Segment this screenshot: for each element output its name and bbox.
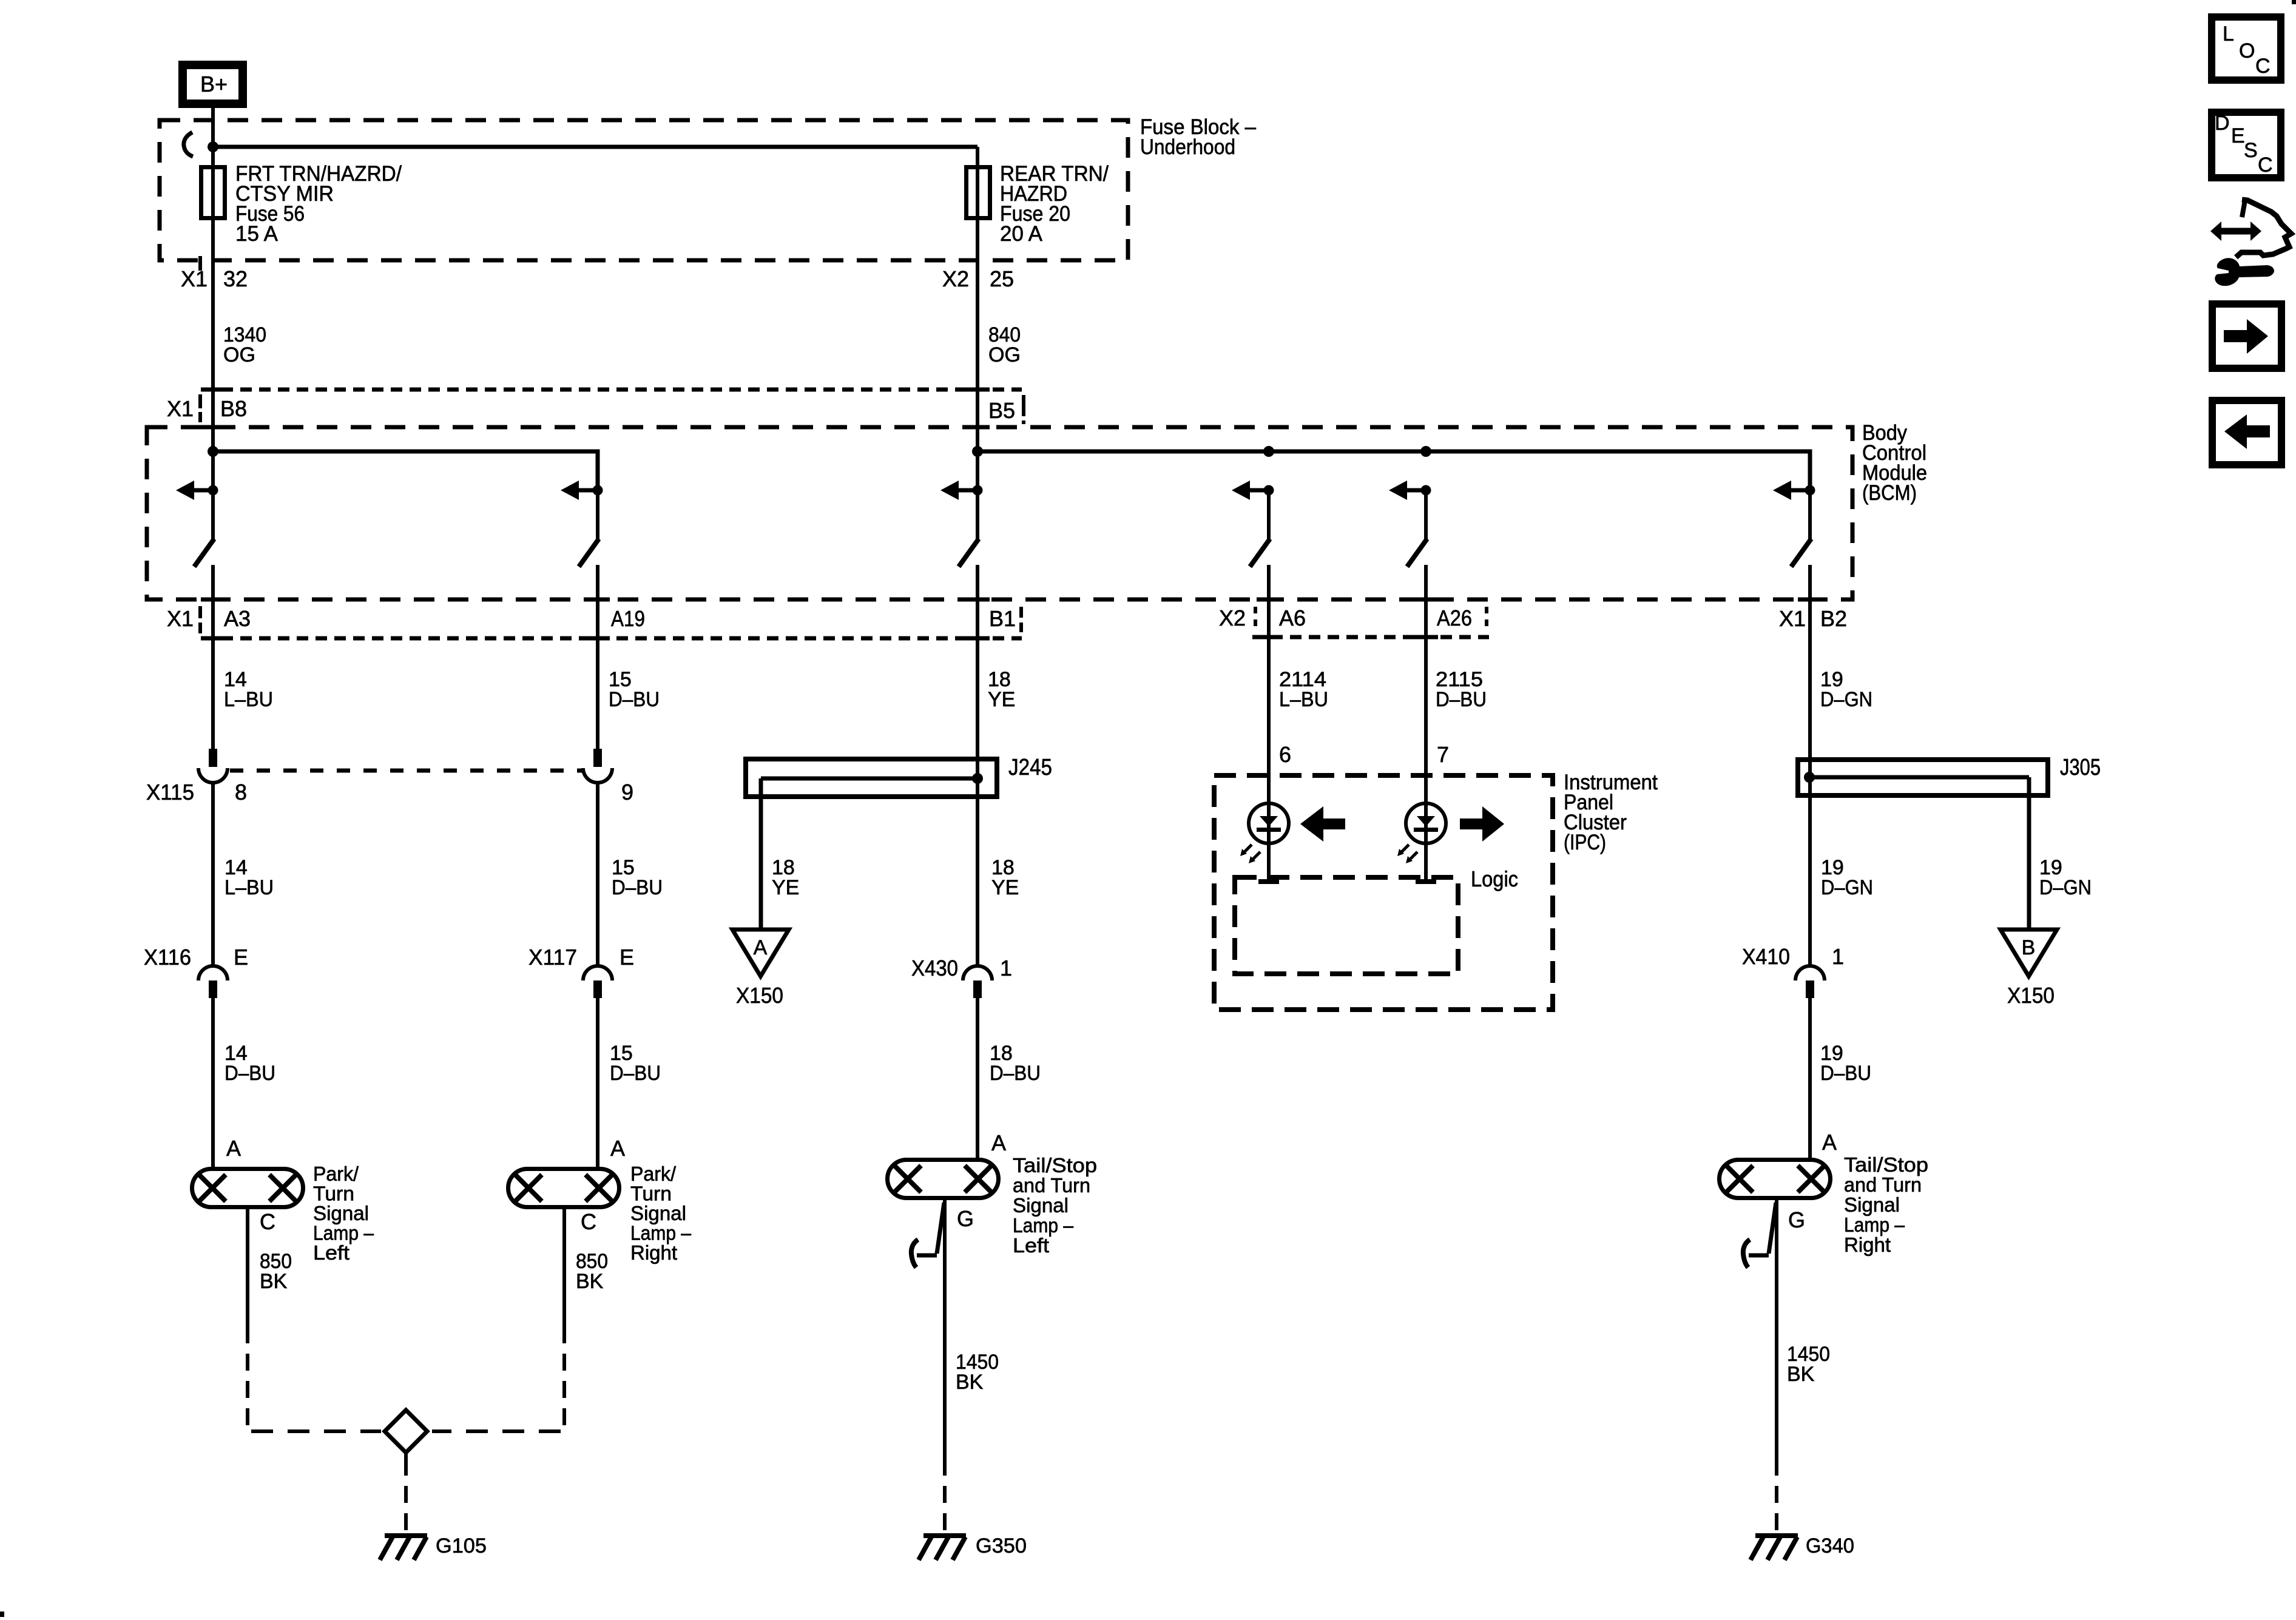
svg-text:O: O xyxy=(2239,39,2255,62)
svg-text:B5: B5 xyxy=(988,398,1015,423)
svg-text:B1: B1 xyxy=(989,606,1016,631)
svg-text:BK: BK xyxy=(956,1371,984,1394)
svg-text:A: A xyxy=(754,936,768,959)
svg-text:E: E xyxy=(2231,124,2245,147)
svg-text:25: 25 xyxy=(990,266,1014,291)
svg-text:X2: X2 xyxy=(942,266,969,291)
svg-text:D–BU: D–BU xyxy=(610,1062,661,1085)
svg-text:X116: X116 xyxy=(144,945,191,970)
svg-text:X1: X1 xyxy=(167,396,194,421)
svg-text:A: A xyxy=(1822,1130,1837,1155)
svg-text:1: 1 xyxy=(1832,944,1844,969)
svg-text:J245: J245 xyxy=(1008,755,1052,780)
svg-text:(IPC): (IPC) xyxy=(1564,831,1606,854)
svg-text:D–BU: D–BU xyxy=(225,1062,275,1085)
svg-text:A: A xyxy=(991,1130,1006,1155)
svg-text:D–BU: D–BU xyxy=(609,688,660,711)
svg-text:7: 7 xyxy=(1437,742,1449,767)
svg-text:Signal: Signal xyxy=(1013,1194,1069,1217)
svg-text:B8: B8 xyxy=(220,396,247,421)
svg-text:1: 1 xyxy=(1000,956,1012,980)
svg-text:X410: X410 xyxy=(1742,944,1790,969)
svg-text:Signal: Signal xyxy=(1844,1193,1900,1216)
svg-text:20 A: 20 A xyxy=(1000,222,1043,246)
svg-text:G350: G350 xyxy=(976,1534,1027,1558)
svg-text:B2: B2 xyxy=(1820,606,1847,631)
svg-text:D–BU: D–BU xyxy=(612,876,663,899)
svg-text:X150: X150 xyxy=(2007,983,2055,1008)
svg-text:X150: X150 xyxy=(736,983,783,1008)
svg-text:G340: G340 xyxy=(1806,1534,1854,1558)
svg-text:YE: YE xyxy=(991,876,1019,899)
svg-text:D–GN: D–GN xyxy=(1820,688,1872,711)
svg-text:L–BU: L–BU xyxy=(225,876,274,899)
svg-text:15 A: 15 A xyxy=(235,222,279,246)
svg-text:D–GN: D–GN xyxy=(2039,876,2092,899)
svg-text:S: S xyxy=(2244,139,2258,162)
svg-text:B+: B+ xyxy=(200,72,228,96)
svg-text:YE: YE xyxy=(772,876,799,899)
svg-text:Signal: Signal xyxy=(313,1202,369,1224)
svg-text:G: G xyxy=(1788,1207,1805,1232)
svg-text:B: B xyxy=(2022,936,2036,959)
svg-text:Logic: Logic xyxy=(1471,866,1518,891)
svg-text:C: C xyxy=(2255,55,2271,78)
svg-text:C: C xyxy=(581,1209,596,1234)
svg-text:D–BU: D–BU xyxy=(1436,688,1487,711)
svg-text:C: C xyxy=(2258,154,2273,177)
svg-text:Lamp –: Lamp – xyxy=(1844,1213,1905,1236)
svg-text:Lamp –: Lamp – xyxy=(630,1222,692,1244)
svg-text:Left: Left xyxy=(1013,1234,1049,1257)
svg-text:C: C xyxy=(260,1209,275,1234)
svg-text:A19: A19 xyxy=(611,606,645,631)
svg-text:Lamp –: Lamp – xyxy=(1013,1214,1074,1237)
svg-text:Park/: Park/ xyxy=(630,1163,677,1185)
svg-text:D–GN: D–GN xyxy=(1821,876,1873,899)
svg-text:Underhood: Underhood xyxy=(1140,135,1235,159)
svg-text:X1: X1 xyxy=(1779,606,1806,631)
svg-text:E: E xyxy=(620,945,634,970)
svg-text:BK: BK xyxy=(1787,1363,1815,1386)
svg-text:X2: X2 xyxy=(1219,606,1246,630)
svg-text:Tail/Stop: Tail/Stop xyxy=(1013,1154,1097,1176)
svg-text:Signal: Signal xyxy=(630,1202,686,1224)
svg-text:Turn: Turn xyxy=(630,1183,672,1205)
svg-text:D: D xyxy=(2215,112,2230,135)
svg-text:32: 32 xyxy=(223,266,248,291)
svg-text:and Turn: and Turn xyxy=(1013,1174,1090,1196)
svg-text:Right: Right xyxy=(1844,1234,1891,1256)
svg-text:A3: A3 xyxy=(224,606,251,631)
svg-text:E: E xyxy=(234,945,248,970)
svg-text:Park/: Park/ xyxy=(313,1163,359,1185)
svg-text:9: 9 xyxy=(621,780,633,805)
svg-text:L–BU: L–BU xyxy=(224,688,273,711)
svg-text:A: A xyxy=(226,1136,241,1161)
svg-text:L–BU: L–BU xyxy=(1279,688,1328,711)
svg-text:YE: YE xyxy=(988,688,1015,711)
svg-text:X1: X1 xyxy=(181,266,208,291)
svg-text:BK: BK xyxy=(260,1270,288,1293)
svg-text:X1: X1 xyxy=(167,606,194,631)
svg-text:8: 8 xyxy=(235,780,247,805)
svg-text:L: L xyxy=(2223,22,2234,46)
svg-text:G105: G105 xyxy=(436,1534,487,1558)
svg-text:J305: J305 xyxy=(2060,755,2101,780)
svg-text:OG: OG xyxy=(223,343,255,366)
svg-text:6: 6 xyxy=(1279,742,1291,767)
svg-text:D–BU: D–BU xyxy=(990,1062,1041,1085)
svg-text:G: G xyxy=(957,1206,974,1231)
svg-text:Left: Left xyxy=(313,1241,349,1264)
svg-text:(BCM): (BCM) xyxy=(1862,481,1917,505)
svg-text:BK: BK xyxy=(576,1270,604,1293)
svg-text:A6: A6 xyxy=(1279,606,1306,630)
svg-text:and Turn: and Turn xyxy=(1844,1173,1922,1196)
svg-text:Tail/Stop: Tail/Stop xyxy=(1844,1153,1928,1176)
svg-text:A: A xyxy=(610,1136,625,1161)
svg-text:Right: Right xyxy=(630,1241,677,1264)
svg-text:Turn: Turn xyxy=(313,1183,354,1205)
svg-text:X115: X115 xyxy=(146,780,194,805)
svg-text:OG: OG xyxy=(988,343,1021,366)
svg-text:Lamp –: Lamp – xyxy=(313,1222,374,1244)
svg-text:X430: X430 xyxy=(911,956,958,980)
svg-text:A26: A26 xyxy=(1437,606,1472,630)
svg-text:D–BU: D–BU xyxy=(1820,1062,1871,1085)
svg-text:X117: X117 xyxy=(528,945,577,970)
